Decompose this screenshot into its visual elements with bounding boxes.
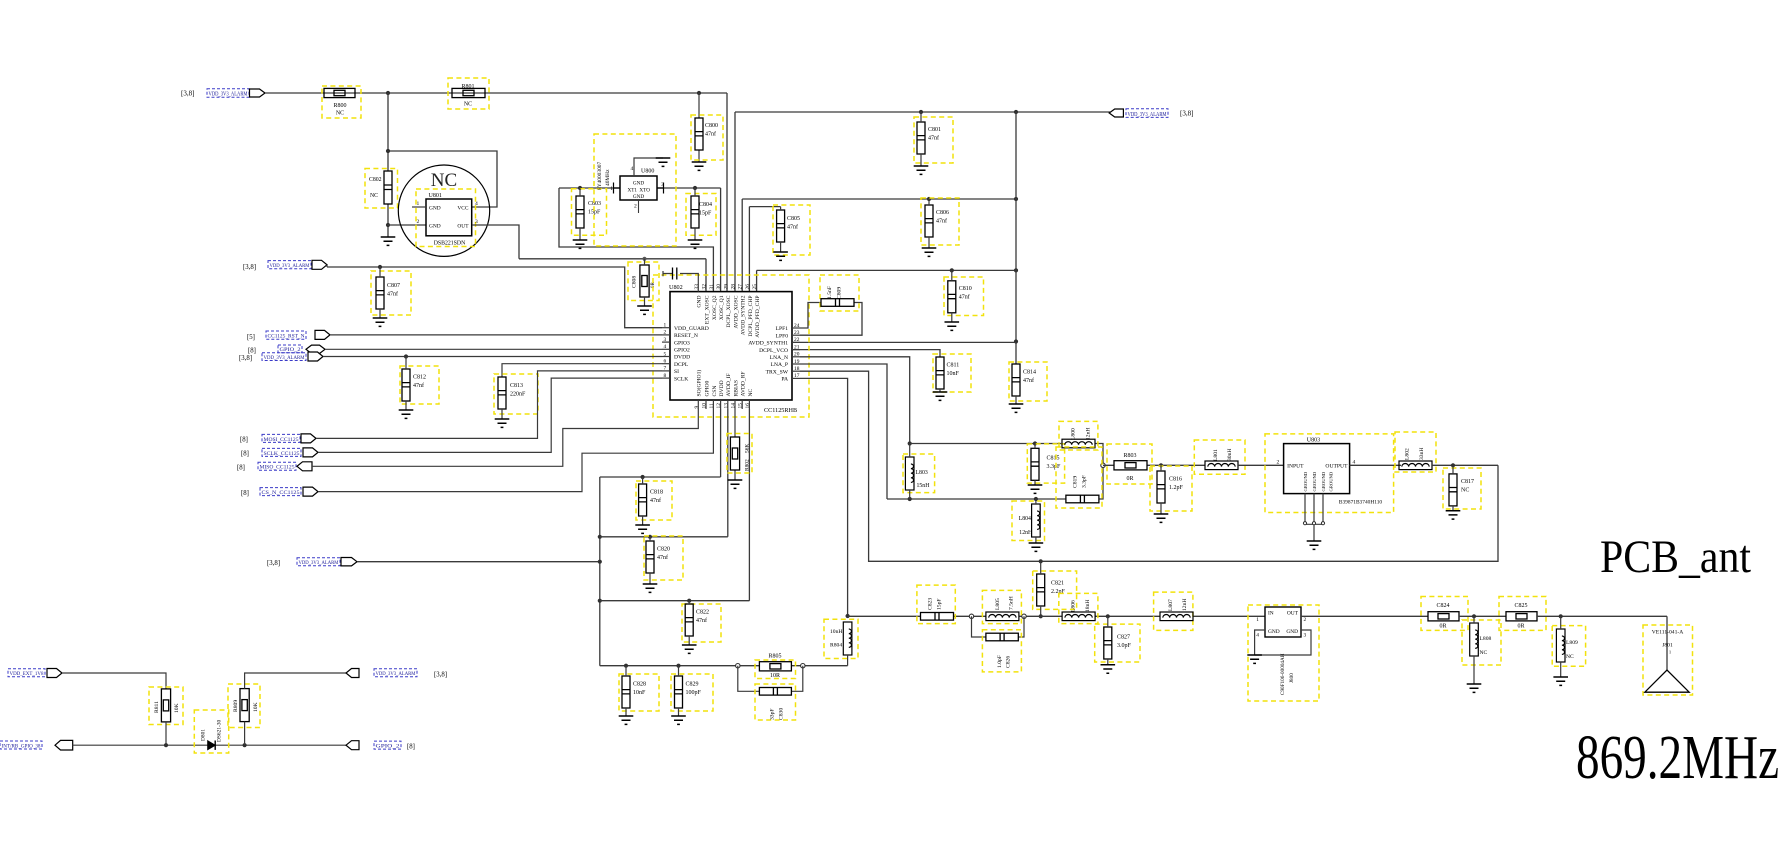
svg-text:C811: C811 bbox=[947, 363, 960, 369]
wire RX top line bbox=[910, 444, 1103, 466]
svg-text:U802: U802 bbox=[669, 284, 683, 291]
node junction bbox=[598, 560, 602, 564]
port INT/RB_GPIO_38 bbox=[55, 740, 73, 750]
node R811 join bbox=[164, 743, 168, 747]
port VDD_3V3_ALARM right bbox=[1109, 109, 1123, 117]
capacitor C816 bbox=[1157, 471, 1165, 503]
svg-text:47nf: 47nf bbox=[959, 293, 970, 300]
node C817 tap bbox=[1451, 463, 1455, 467]
wire DVDD bbox=[323, 356, 662, 358]
capacitor C827 bbox=[1104, 627, 1112, 659]
svg-text:GPIO_2: GPIO_2 bbox=[376, 744, 400, 750]
capacitor C820 bbox=[646, 541, 654, 573]
wire crystal pin plates bbox=[614, 183, 664, 194]
svg-text:C804: C804 bbox=[699, 202, 712, 208]
node C801 tap bbox=[919, 110, 923, 114]
wire U801 pin1 stub bbox=[412, 206, 426, 208]
wire DCPL_PFD_CHP to C805 bbox=[749, 207, 780, 292]
ground below C817 bbox=[1446, 511, 1461, 519]
node C803 tap bbox=[578, 186, 582, 190]
svg-text:3: 3 bbox=[1304, 633, 1307, 639]
svg-text:VDD_GUARD: VDD_GUARD bbox=[674, 326, 709, 332]
wire L809 leads bbox=[1560, 616, 1562, 677]
svg-text:GROUND: GROUND bbox=[1312, 471, 1317, 491]
svg-text:OUT: OUT bbox=[1287, 611, 1299, 617]
svg-text:10R: 10R bbox=[770, 673, 780, 679]
wire pin 2 stub bbox=[662, 334, 670, 336]
wire TCXO out to EXT_XOSC pin32 bbox=[519, 259, 706, 292]
wire MOSI to SI bbox=[316, 371, 662, 439]
svg-text:C821: C821 bbox=[1051, 581, 1064, 587]
svg-text:GPIO2: GPIO2 bbox=[674, 348, 690, 354]
ground below C804 bbox=[688, 240, 703, 248]
wire C816 leads bbox=[1160, 465, 1162, 514]
svg-text:GND: GND bbox=[1286, 629, 1298, 635]
node L805 right bbox=[1022, 614, 1026, 618]
svg-text:4: 4 bbox=[475, 201, 478, 207]
svg-text:DSB221SDN: DSB221SDN bbox=[434, 241, 466, 247]
svg-text:EXT_XOSC: EXT_XOSC bbox=[704, 295, 710, 324]
wire C830 branch bbox=[738, 666, 803, 692]
wire RESET_N bbox=[330, 334, 662, 336]
svg-text:0R: 0R bbox=[1126, 476, 1133, 482]
svg-text:VDD_3V3_ALARM: VDD_3V3_ALARM bbox=[264, 355, 305, 361]
node junction bbox=[1014, 197, 1018, 201]
node PA match bbox=[846, 614, 850, 618]
svg-text:C808: C808 bbox=[632, 276, 638, 288]
port CS_N_CC1125 bbox=[303, 487, 318, 496]
node junction bbox=[598, 599, 602, 603]
wire XTO to XOSC_Q1 pin30 bbox=[657, 188, 721, 292]
port VDD_3V3_ALARM dvdd bbox=[308, 352, 323, 361]
node L805 left bbox=[969, 614, 973, 618]
op-amp U801 oscillator DSB221SDN bbox=[398, 165, 489, 256]
svg-text:VDD_EXT_1V8: VDD_EXT_1V8 bbox=[10, 671, 44, 677]
svg-text:L804: L804 bbox=[1019, 516, 1031, 522]
svg-text:GPIO0: GPIO0 bbox=[704, 380, 710, 396]
svg-text:U801: U801 bbox=[429, 193, 442, 199]
wire C807 leads bbox=[379, 267, 381, 318]
svg-text:15nH: 15nH bbox=[917, 483, 931, 489]
svg-text:OUT: OUT bbox=[457, 224, 469, 230]
svg-text:4: 4 bbox=[1256, 633, 1259, 639]
resistor R809 bbox=[240, 689, 249, 722]
node C822 tap bbox=[687, 599, 691, 603]
svg-text:XT1: XT1 bbox=[628, 188, 638, 194]
wire AVDD_RF row bbox=[600, 409, 750, 601]
capacitor C811 bbox=[936, 357, 944, 389]
wire LNA_N bbox=[800, 357, 910, 444]
svg-text:R800: R800 bbox=[333, 103, 346, 109]
svg-text:INT/RB_GPIO_38: INT/RB_GPIO_38 bbox=[2, 743, 41, 749]
node C829 tap bbox=[676, 664, 680, 668]
capacitor C801 bbox=[917, 122, 925, 154]
wire pin 12 stub bbox=[720, 400, 722, 409]
wire AVDD_XOSC row bbox=[735, 112, 1110, 292]
wire C826 branch bbox=[972, 616, 1025, 637]
capacitor C829 bbox=[675, 676, 683, 708]
ground below C808 bbox=[637, 306, 652, 314]
svg-text:DCPL_XOSC: DCPL_XOSC bbox=[726, 295, 732, 327]
ground below C814 bbox=[1009, 404, 1024, 412]
svg-text:C828: C828 bbox=[633, 682, 646, 688]
svg-text:47nf: 47nf bbox=[387, 290, 398, 297]
svg-text:[3,8]: [3,8] bbox=[239, 355, 252, 362]
wire R803 link bbox=[1103, 464, 1205, 466]
wire crystal pin2 stub bbox=[638, 200, 640, 213]
wire pin 5 stub bbox=[662, 356, 670, 358]
svg-text:32: 32 bbox=[702, 284, 708, 290]
inductor L801 bbox=[1205, 461, 1238, 470]
ground below R802 bbox=[728, 480, 743, 488]
wire PA bbox=[800, 378, 848, 616]
svg-text:C812: C812 bbox=[413, 375, 426, 381]
svg-text:47nf: 47nf bbox=[928, 134, 939, 141]
svg-text:GND: GND bbox=[697, 296, 703, 308]
svg-text:DCPL_VCO: DCPL_VCO bbox=[759, 348, 788, 354]
svg-text:XTO: XTO bbox=[639, 188, 650, 194]
svg-text:1.2pF: 1.2pF bbox=[1169, 485, 1184, 491]
wire C829 leads bbox=[678, 666, 680, 716]
wire pin 18 stub bbox=[792, 370, 800, 372]
capacitor C815 bbox=[1031, 448, 1039, 480]
svg-text:C805: C805 bbox=[787, 216, 800, 222]
op-amp U802 CC1125RHB main IC bbox=[653, 275, 809, 417]
svg-text:C826: C826 bbox=[1006, 656, 1012, 668]
svg-text:[3,8]: [3,8] bbox=[434, 672, 447, 679]
node CC1125_RST_N net label bbox=[266, 331, 306, 339]
svg-text:1.0pF: 1.0pF bbox=[997, 655, 1003, 668]
wire pin 1 stub bbox=[662, 327, 670, 329]
svg-text:24: 24 bbox=[794, 323, 800, 329]
ground below J800 bbox=[1247, 655, 1262, 663]
svg-text:47nf: 47nf bbox=[413, 382, 424, 389]
wire R811 bottom bbox=[165, 722, 167, 745]
port VDD_3V3_ALARM guard bbox=[312, 260, 327, 269]
svg-text:3: 3 bbox=[475, 219, 478, 225]
svg-text:C824: C824 bbox=[1436, 603, 1449, 609]
ground below L808 bbox=[1467, 684, 1482, 692]
wire C821 leads bbox=[1040, 561, 1042, 616]
wire RBIAS bbox=[734, 409, 736, 480]
svg-text:0R: 0R bbox=[1517, 624, 1524, 630]
svg-text:LNA_N: LNA_N bbox=[770, 355, 788, 361]
inductor L802 bbox=[1399, 461, 1432, 470]
wire C822 leads bbox=[688, 601, 690, 645]
ground below C812 bbox=[399, 410, 414, 418]
port MOSI_CC1125 bbox=[301, 434, 316, 443]
node C807 tap bbox=[378, 265, 382, 269]
svg-text:MISO_CC1125: MISO_CC1125 bbox=[260, 465, 295, 471]
ground below C829 bbox=[671, 716, 686, 724]
ground below C818 bbox=[635, 525, 650, 533]
ground below C813 bbox=[495, 419, 510, 427]
wire PA supply bus bbox=[600, 665, 848, 667]
svg-text:NC: NC bbox=[1480, 650, 1488, 656]
svg-text:[3,8]: [3,8] bbox=[181, 90, 194, 98]
svg-text:30: 30 bbox=[716, 284, 722, 290]
svg-text:C813: C813 bbox=[510, 383, 523, 389]
node GPIO_2 net label bbox=[374, 741, 401, 749]
svg-text:C829: C829 bbox=[686, 682, 699, 688]
svg-text:C827: C827 bbox=[1117, 635, 1130, 641]
wire LPF loop bbox=[800, 303, 862, 336]
inductor L809 bbox=[1556, 629, 1565, 662]
wire C815 leads bbox=[1034, 444, 1036, 486]
wire C817 leads bbox=[1452, 465, 1454, 510]
svg-text:SCLK: SCLK bbox=[674, 376, 688, 382]
wire supply vertical bbox=[599, 477, 601, 666]
svg-text:1: 1 bbox=[417, 201, 420, 207]
svg-text:MOSI_CC1125: MOSI_CC1125 bbox=[264, 437, 299, 443]
svg-text:VDD_3V3_ALARM: VDD_3V3_ALARM bbox=[376, 671, 416, 677]
svg-text:4: 4 bbox=[631, 166, 634, 172]
svg-text:27: 27 bbox=[738, 284, 744, 290]
wire XT1 to XOSC_Q2 pin31 bbox=[559, 188, 713, 292]
svg-text:47nf: 47nf bbox=[650, 497, 661, 504]
capacitor C809 bbox=[821, 299, 854, 307]
svg-text:1: 1 bbox=[1256, 617, 1259, 623]
svg-text:12nH: 12nH bbox=[1182, 599, 1188, 611]
port VDD_3V3_ALARM bbox=[250, 89, 266, 97]
capacitor C818 bbox=[639, 484, 647, 516]
svg-text:SO(GPIO1): SO(GPIO1) bbox=[696, 370, 703, 397]
svg-text:VE111-041-A: VE111-041-A bbox=[1652, 630, 1684, 636]
node L808 tap bbox=[1472, 614, 1476, 618]
node INT/RB_GPIO_38 net label bbox=[0, 741, 42, 749]
svg-text:10nF: 10nF bbox=[633, 690, 646, 696]
svg-text:LPF1: LPF1 bbox=[776, 326, 789, 332]
svg-text:C800: C800 bbox=[705, 123, 718, 129]
capacitor C803 bbox=[576, 196, 584, 228]
op-amp U803 SAW filter B39871B3740H110 bbox=[1265, 434, 1394, 513]
wire C827 leads bbox=[1107, 616, 1109, 665]
capacitor C825 0R bbox=[1506, 612, 1537, 621]
svg-text:C809: C809 bbox=[837, 287, 843, 299]
wire GPIO_38 line bbox=[73, 744, 346, 746]
wire C810 leads bbox=[951, 270, 953, 322]
svg-text:L803: L803 bbox=[916, 470, 928, 476]
capacitor C813 bbox=[498, 377, 506, 409]
node C828 tap bbox=[624, 664, 628, 668]
svg-text:3.3pF: 3.3pF bbox=[1082, 475, 1088, 488]
svg-text:L808: L808 bbox=[1480, 636, 1492, 642]
svg-text:19: 19 bbox=[794, 359, 800, 365]
wire pin 11 stub bbox=[712, 400, 714, 409]
wire pin 7 stub bbox=[662, 370, 670, 372]
capacitor C826 bbox=[986, 633, 1018, 641]
svg-text:C818: C818 bbox=[650, 490, 663, 496]
svg-text:31: 31 bbox=[709, 284, 715, 290]
wire DVDD row bbox=[600, 409, 721, 477]
svg-text:R804: R804 bbox=[830, 643, 842, 649]
inductor R804 10nH bbox=[843, 622, 852, 655]
svg-text:GND: GND bbox=[429, 224, 441, 230]
svg-text:GROUND: GROUND bbox=[1329, 471, 1334, 491]
svg-text:12nH: 12nH bbox=[1086, 428, 1092, 440]
ground below C801 bbox=[914, 166, 929, 174]
wire AVDD_IF row bbox=[600, 409, 728, 537]
wire C813 lead bbox=[501, 409, 503, 419]
svg-text:B39871B3740H110: B39871B3740H110 bbox=[1339, 500, 1383, 506]
ground below C802 bbox=[381, 237, 396, 245]
ground below C816 bbox=[1154, 514, 1169, 522]
svg-text:25: 25 bbox=[752, 284, 758, 290]
wire SAW grounds bbox=[1305, 494, 1323, 541]
svg-text:[3,8]: [3,8] bbox=[243, 264, 256, 271]
svg-text:R803: R803 bbox=[1123, 453, 1136, 459]
wire AVDD_SYNTH1 bbox=[792, 341, 1016, 343]
inductor L803 bbox=[905, 457, 914, 490]
svg-text:OUTPUT: OUTPUT bbox=[1325, 464, 1348, 470]
wire pin 17 stub bbox=[792, 377, 800, 379]
capacitor C805 bbox=[777, 210, 785, 242]
svg-text:AVDD_IF: AVDD_IF bbox=[726, 373, 732, 396]
svg-text:GROUND: GROUND bbox=[1303, 471, 1308, 491]
svg-text:3: 3 bbox=[664, 337, 667, 343]
svg-text:2: 2 bbox=[634, 204, 637, 210]
node junction bbox=[1014, 268, 1018, 272]
antenna J801 VE111-041-A bbox=[1643, 625, 1693, 695]
wire J800 grounds bbox=[1255, 630, 1311, 655]
wire pin 3 stub bbox=[662, 341, 670, 343]
wire R809 to port bbox=[245, 673, 346, 745]
svg-text:15pF: 15pF bbox=[699, 210, 712, 216]
node L809 tap bbox=[1559, 614, 1563, 618]
svg-text:NC: NC bbox=[1566, 654, 1574, 660]
port SCLK_CC1125 bbox=[303, 448, 318, 457]
svg-text:IN: IN bbox=[1268, 611, 1274, 617]
svg-text:C817: C817 bbox=[1461, 479, 1474, 485]
svg-text:C815: C815 bbox=[1047, 456, 1060, 462]
svg-text:C814: C814 bbox=[1023, 370, 1036, 376]
ground below C811 bbox=[933, 392, 948, 400]
svg-text:8: 8 bbox=[664, 373, 667, 379]
node C815 top bbox=[1033, 441, 1037, 445]
wire C805 leads bbox=[780, 207, 782, 252]
inductor L808 bbox=[1470, 623, 1479, 656]
svg-text:L807: L807 bbox=[1168, 599, 1174, 611]
resistor C808 bbox=[640, 265, 649, 297]
svg-text:1: 1 bbox=[664, 323, 667, 329]
wire C811 lead bbox=[939, 389, 941, 392]
resistor R801 bbox=[452, 88, 485, 97]
svg-text:23: 23 bbox=[794, 330, 800, 336]
wire MISO from SO bbox=[312, 409, 698, 466]
port CC1125_RST_N bbox=[315, 330, 330, 339]
capacitor C800 bbox=[695, 118, 703, 150]
wire pin 9 stub bbox=[697, 400, 699, 409]
wire C814 lead bbox=[1015, 396, 1017, 404]
node SCLK_CC1125 net label bbox=[262, 448, 301, 456]
svg-text:VDD_3V3_ALARM: VDD_3V3_ALARM bbox=[299, 560, 339, 566]
node VDD_3V3_ALARM net label bbox=[262, 353, 306, 361]
svg-text:[8]: [8] bbox=[248, 348, 256, 355]
wire LNA_P bbox=[800, 364, 887, 499]
svg-text:L809: L809 bbox=[1566, 640, 1578, 646]
svg-text:10nF: 10nF bbox=[947, 371, 960, 377]
node C816 tap bbox=[1159, 463, 1163, 467]
capacitor C830 bbox=[759, 688, 791, 696]
svg-text:33nH: 33nH bbox=[1419, 448, 1425, 460]
svg-text:RESET_N: RESET_N bbox=[674, 333, 698, 339]
svg-text:AVDD_RF: AVDD_RF bbox=[741, 371, 747, 396]
diode D801 DS621-30 bbox=[194, 710, 228, 753]
svg-text:XOSC_Q1: XOSC_Q1 bbox=[719, 295, 725, 320]
svg-text:29: 29 bbox=[723, 284, 729, 290]
ground below C820 bbox=[643, 584, 658, 592]
svg-text:U800: U800 bbox=[641, 169, 654, 175]
svg-text:26: 26 bbox=[745, 284, 751, 290]
svg-text:VCC: VCC bbox=[457, 206, 468, 212]
svg-text:TRX_SW: TRX_SW bbox=[766, 369, 789, 375]
inductor L806 bbox=[1062, 612, 1095, 621]
svg-text:C830: C830 bbox=[779, 708, 785, 720]
node junction bbox=[386, 149, 390, 153]
crystal U800 40MHz bbox=[620, 176, 657, 200]
svg-text:28: 28 bbox=[731, 284, 737, 290]
ground below C807 bbox=[373, 318, 388, 326]
wire U801 GND pin2 bbox=[388, 224, 426, 226]
node C812 tap bbox=[404, 354, 408, 358]
svg-text:7: 7 bbox=[664, 366, 667, 372]
svg-text:R805: R805 bbox=[768, 654, 781, 660]
ground below C800 bbox=[692, 162, 707, 170]
capacitor C806 bbox=[925, 205, 933, 237]
svg-text:SI: SI bbox=[674, 369, 679, 375]
wire SCLK bbox=[318, 378, 662, 452]
wire VDD_EXT_1V8 bbox=[62, 673, 166, 689]
svg-text:GROUND: GROUND bbox=[1321, 471, 1326, 491]
svg-text:CS_N_CC1125: CS_N_CC1125 bbox=[262, 490, 300, 496]
svg-text:47nf: 47nf bbox=[936, 217, 947, 224]
svg-text:LPF0: LPF0 bbox=[776, 333, 789, 339]
ground below C828 bbox=[619, 716, 634, 724]
svg-text:30nH: 30nH bbox=[1227, 449, 1233, 461]
svg-text:47nf: 47nf bbox=[696, 617, 707, 624]
svg-text:SCLK_CC1125: SCLK_CC1125 bbox=[264, 451, 300, 457]
svg-text:GPIO_2: GPIO_2 bbox=[280, 347, 301, 353]
svg-text:18nH: 18nH bbox=[1085, 600, 1091, 612]
svg-text:C801: C801 bbox=[928, 127, 941, 133]
wire GND pin33 cap bbox=[663, 271, 698, 292]
wire C828 leads bbox=[625, 666, 627, 716]
svg-text:40MHz: 40MHz bbox=[605, 169, 611, 186]
wire crystal pin4 gnd bbox=[634, 158, 663, 176]
resistor R805 bbox=[759, 662, 791, 671]
svg-text:18: 18 bbox=[794, 366, 800, 372]
capacitor C807 bbox=[376, 277, 384, 309]
wire C818 leads bbox=[642, 477, 644, 525]
svg-text:AVDD_SYNTH1: AVDD_SYNTH1 bbox=[748, 341, 788, 347]
port VDD_EXT_1V8 bbox=[47, 669, 62, 678]
node VDD_3V3_ALARM net label bbox=[1126, 109, 1168, 118]
svg-text:C825: C825 bbox=[1514, 603, 1527, 609]
svg-text:12nH: 12nH bbox=[1019, 530, 1033, 536]
svg-text:INPUT: INPUT bbox=[1287, 464, 1304, 470]
node C810 tap bbox=[950, 268, 954, 272]
wire AVDD_SYNTH2 row bbox=[742, 199, 1016, 292]
svg-text:L800: L800 bbox=[1071, 428, 1077, 440]
node C827 tap bbox=[1106, 614, 1110, 618]
svg-text:AVDD_SYNTH2: AVDD_SYNTH2 bbox=[741, 295, 747, 335]
ground below C822 bbox=[682, 645, 697, 653]
svg-text:5: 5 bbox=[664, 351, 667, 357]
ground below L809 bbox=[1553, 677, 1568, 685]
wire pin 22 stub bbox=[792, 341, 800, 343]
svg-text:PA: PA bbox=[781, 377, 788, 383]
capacitor C828 bbox=[622, 676, 630, 708]
